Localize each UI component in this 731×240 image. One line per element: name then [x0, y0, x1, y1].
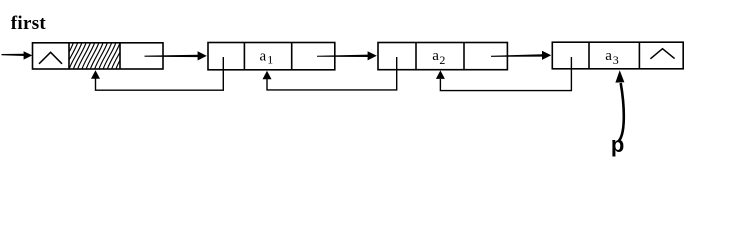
- svg-text:3: 3: [613, 53, 619, 67]
- svg-text:first: first: [11, 13, 47, 34]
- svg-text:a: a: [260, 48, 267, 64]
- svg-text:a: a: [605, 48, 612, 64]
- svg-text:1: 1: [267, 53, 273, 67]
- svg-text:p: p: [611, 132, 624, 157]
- svg-text:2: 2: [439, 53, 445, 67]
- svg-text:a: a: [432, 48, 439, 64]
